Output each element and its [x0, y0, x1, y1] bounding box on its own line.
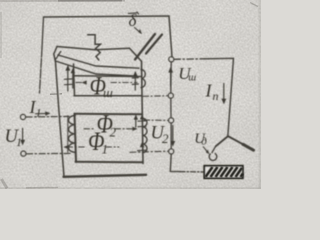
- svg-text:1: 1: [36, 106, 42, 120]
- svg-text:I: I: [205, 81, 213, 101]
- svg-text:1: 1: [16, 135, 22, 149]
- svg-text:д: д: [201, 136, 207, 148]
- svg-text:δ: δ: [129, 11, 138, 30]
- svg-text:2: 2: [110, 125, 117, 140]
- svg-text:ш: ш: [103, 85, 113, 100]
- svg-text:1: 1: [102, 142, 109, 157]
- svg-text:ш: ш: [188, 73, 196, 84]
- svg-text:п: п: [213, 89, 219, 103]
- svg-text:2: 2: [162, 131, 169, 146]
